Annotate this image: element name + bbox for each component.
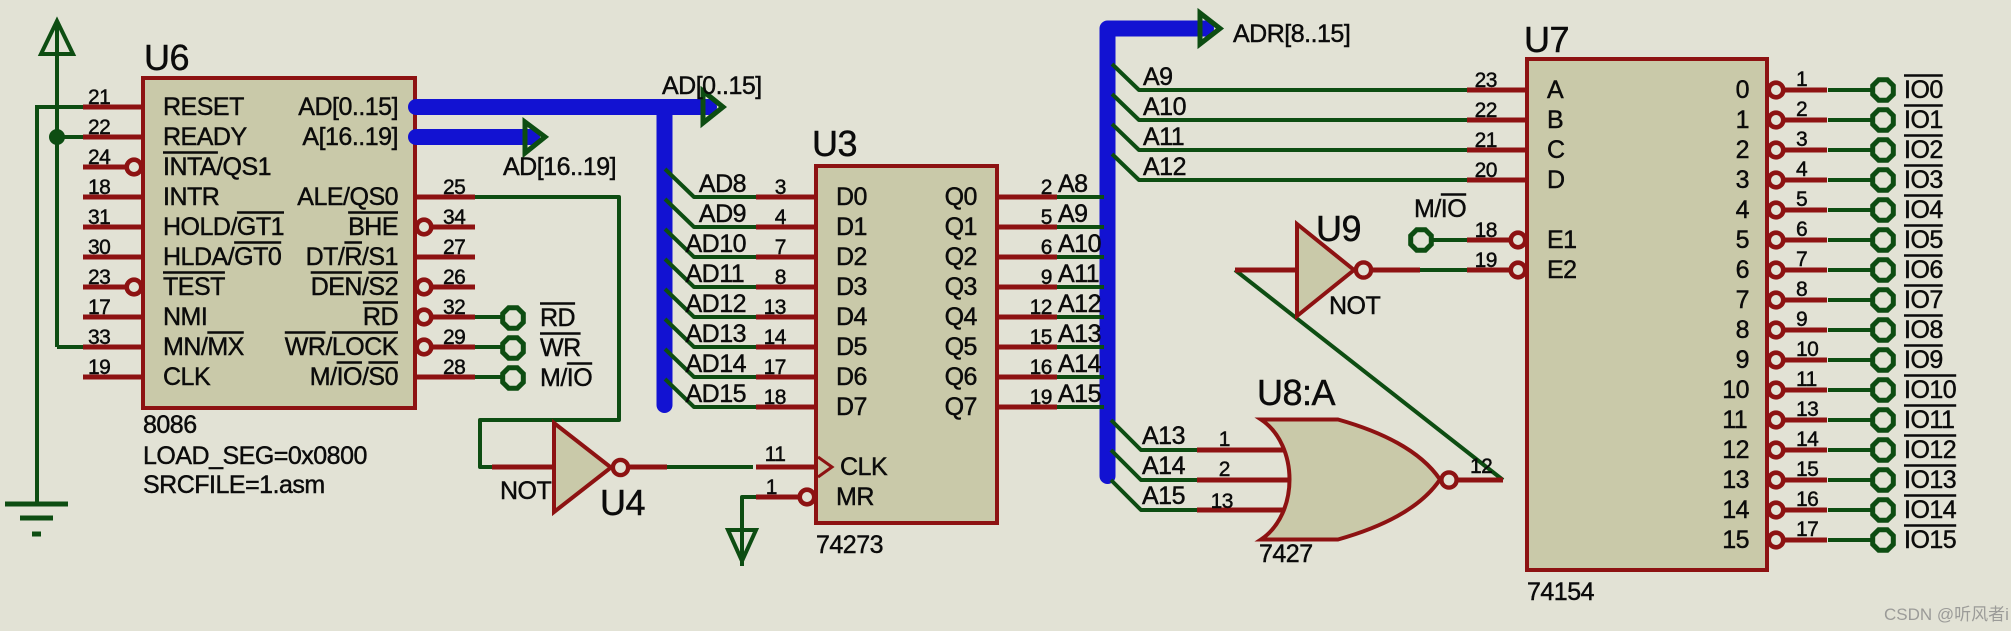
svg-text:16: 16 [1030,356,1052,379]
svg-text:6: 6 [1041,236,1052,259]
svg-text:1: 1 [766,476,777,499]
svg-text:18: 18 [1475,219,1497,242]
svg-text:12: 12 [1470,455,1492,478]
svg-text:30: 30 [88,236,110,259]
svg-text:NOT: NOT [1329,292,1381,320]
svg-text:IO0: IO0 [1904,76,1943,104]
svg-text:AD11: AD11 [686,260,745,288]
svg-text:19: 19 [1475,249,1497,272]
svg-text:20: 20 [1475,159,1497,182]
svg-text:IO12: IO12 [1904,436,1956,464]
svg-text:IO5: IO5 [1904,226,1943,254]
svg-text:LOAD_SEG=0x0800: LOAD_SEG=0x0800 [143,442,367,470]
svg-text:AD[0..15]: AD[0..15] [298,93,398,121]
svg-text:25: 25 [443,176,465,199]
svg-text:D7: D7 [836,393,867,421]
svg-text:22: 22 [1475,99,1497,122]
svg-text:0: 0 [1736,76,1749,104]
svg-text:21: 21 [1475,129,1497,152]
svg-text:33: 33 [88,326,110,349]
svg-text:A8: A8 [1058,170,1088,198]
svg-text:3: 3 [1796,128,1807,151]
svg-text:6: 6 [1736,256,1749,284]
svg-text:RESET: RESET [163,93,244,121]
svg-text:28: 28 [443,356,465,379]
svg-text:CLK: CLK [840,453,888,481]
svg-text:8: 8 [1736,316,1749,344]
svg-text:IO9: IO9 [1904,346,1943,374]
svg-text:AD9: AD9 [699,200,746,228]
svg-text:IO8: IO8 [1904,316,1943,344]
svg-text:IO6: IO6 [1904,256,1943,284]
svg-text:M/IO: M/IO [1414,195,1466,223]
svg-text:14: 14 [1796,428,1819,451]
svg-text:11: 11 [1722,406,1747,434]
svg-text:6: 6 [1796,218,1807,241]
svg-text:AD[0..15]: AD[0..15] [662,72,762,100]
svg-text:8: 8 [775,266,786,289]
svg-text:13: 13 [1722,466,1749,494]
svg-text:29: 29 [443,326,465,349]
svg-text:11: 11 [765,443,786,466]
svg-text:BHE: BHE [348,213,398,241]
svg-text:A15: A15 [1058,380,1101,408]
svg-text:7: 7 [775,236,786,259]
svg-text:10: 10 [1796,338,1818,361]
svg-text:Q0: Q0 [945,183,977,211]
svg-text:M/IO/S0: M/IO/S0 [310,363,398,391]
svg-text:U9: U9 [1316,208,1361,249]
svg-text:AD[16..19]: AD[16..19] [503,153,616,181]
svg-text:27: 27 [443,236,465,259]
svg-text:7: 7 [1736,286,1749,314]
svg-text:A13: A13 [1058,320,1101,348]
svg-text:2: 2 [1796,98,1807,121]
svg-text:23: 23 [88,266,110,289]
svg-text:U4: U4 [600,482,645,523]
svg-text:1: 1 [1736,106,1749,134]
svg-text:Q4: Q4 [945,303,978,331]
svg-text:1: 1 [1796,68,1807,91]
svg-text:IO1: IO1 [1904,106,1943,134]
svg-text:DEN/S2: DEN/S2 [311,273,398,301]
svg-text:AD13: AD13 [686,320,747,348]
svg-text:INTA/QS1: INTA/QS1 [163,153,271,181]
svg-text:A12: A12 [1058,290,1101,318]
svg-text:5: 5 [1041,206,1052,229]
svg-text:E2: E2 [1547,256,1577,284]
svg-text:3: 3 [1736,166,1749,194]
svg-text:D1: D1 [836,213,867,241]
svg-text:A11: A11 [1058,260,1099,288]
svg-text:A[16..19]: A[16..19] [302,123,398,151]
svg-text:AD14: AD14 [686,350,747,378]
svg-text:Q2: Q2 [945,243,977,271]
svg-text:26: 26 [443,266,465,289]
svg-text:C: C [1547,136,1565,164]
svg-text:13: 13 [1796,398,1818,421]
svg-text:2: 2 [1041,176,1052,199]
svg-text:U8:A: U8:A [1257,372,1336,413]
svg-text:AD12: AD12 [686,290,747,318]
svg-text:19: 19 [88,356,110,379]
svg-text:D0: D0 [836,183,867,211]
svg-text:5: 5 [1736,226,1749,254]
svg-text:14: 14 [1722,496,1749,524]
svg-text:Q5: Q5 [945,333,977,361]
svg-text:17: 17 [88,296,110,319]
svg-text:WR/LOCK: WR/LOCK [285,333,399,361]
svg-text:D6: D6 [836,363,867,391]
svg-text:SRCFILE=1.asm: SRCFILE=1.asm [143,471,325,499]
svg-text:IO4: IO4 [1904,196,1943,224]
svg-text:NOT: NOT [500,477,552,505]
svg-text:34: 34 [443,206,466,229]
svg-text:32: 32 [443,296,465,319]
svg-text:IO3: IO3 [1904,166,1943,194]
svg-text:U3: U3 [812,123,857,164]
svg-text:9: 9 [1796,308,1807,331]
svg-text:14: 14 [764,326,787,349]
svg-text:U6: U6 [144,37,189,78]
svg-text:4: 4 [775,206,787,229]
svg-text:15: 15 [1722,526,1749,554]
svg-text:MR: MR [836,483,874,511]
svg-text:HLDA/GT0: HLDA/GT0 [163,243,281,271]
svg-text:MN/MX: MN/MX [163,333,245,361]
svg-text:A13: A13 [1142,422,1185,450]
svg-text:IO14: IO14 [1904,496,1957,524]
svg-text:A11: A11 [1143,123,1184,151]
svg-text:22: 22 [88,116,110,139]
svg-text:D3: D3 [836,273,867,301]
svg-text:D: D [1547,166,1565,194]
svg-text:ADR[8..15]: ADR[8..15] [1233,20,1350,48]
svg-text:IO7: IO7 [1904,286,1943,314]
svg-text:D2: D2 [836,243,867,271]
svg-text:8: 8 [1796,278,1807,301]
svg-text:INTR: INTR [163,183,219,211]
svg-text:15: 15 [1030,326,1052,349]
svg-text:3: 3 [775,176,786,199]
svg-text:IO11: IO11 [1904,406,1954,434]
svg-text:2: 2 [1736,136,1749,164]
svg-text:21: 21 [88,86,110,109]
svg-text:DT/R/S1: DT/R/S1 [306,243,398,271]
svg-text:CLK: CLK [163,363,211,391]
svg-text:Q7: Q7 [945,393,977,421]
svg-text:A14: A14 [1142,452,1186,480]
svg-text:IO10: IO10 [1904,376,1956,404]
svg-text:A15: A15 [1142,482,1185,510]
svg-text:74273: 74273 [816,531,883,559]
svg-text:13: 13 [764,296,786,319]
svg-text:RD: RD [363,303,398,331]
svg-text:16: 16 [1796,488,1818,511]
svg-text:A12: A12 [1143,153,1186,181]
svg-text:18: 18 [88,176,110,199]
svg-text:TEST: TEST [163,273,225,301]
svg-text:31: 31 [88,206,110,229]
svg-text:U7: U7 [1524,19,1569,60]
svg-text:IO2: IO2 [1904,136,1943,164]
svg-text:1: 1 [1219,428,1230,451]
svg-text:READY: READY [163,123,247,151]
svg-text:4: 4 [1796,158,1808,181]
svg-text:13: 13 [1211,490,1233,513]
svg-text:NMI: NMI [163,303,207,331]
svg-text:2: 2 [1219,458,1230,481]
svg-text:23: 23 [1475,69,1497,92]
svg-text:HOLD/GT1: HOLD/GT1 [163,213,284,241]
svg-text:A9: A9 [1143,63,1173,91]
svg-text:RD: RD [540,304,575,332]
svg-text:IO15: IO15 [1904,526,1956,554]
svg-text:10: 10 [1722,376,1749,404]
svg-text:12: 12 [1722,436,1749,464]
svg-text:ALE/QS0: ALE/QS0 [297,183,398,211]
svg-text:A: A [1547,76,1564,104]
svg-text:19: 19 [1030,386,1052,409]
svg-text:17: 17 [1796,518,1818,541]
svg-text:D5: D5 [836,333,867,361]
svg-text:11: 11 [1796,368,1817,391]
svg-text:24: 24 [88,146,111,169]
svg-text:18: 18 [764,386,786,409]
svg-text:12: 12 [1030,296,1052,319]
svg-text:A9: A9 [1058,200,1088,228]
svg-text:74154: 74154 [1527,578,1595,606]
svg-text:A14: A14 [1058,350,1102,378]
svg-text:M/IO: M/IO [540,364,592,392]
svg-text:CSDN @听风者i: CSDN @听风者i [1884,605,2009,624]
svg-text:8086: 8086 [143,411,197,439]
svg-text:Q3: Q3 [945,273,977,301]
svg-text:D4: D4 [836,303,868,331]
svg-text:IO13: IO13 [1904,466,1956,494]
svg-text:AD8: AD8 [699,170,746,198]
svg-text:9: 9 [1736,346,1749,374]
svg-text:5: 5 [1796,188,1807,211]
svg-text:15: 15 [1796,458,1818,481]
svg-text:17: 17 [764,356,786,379]
svg-text:A10: A10 [1143,93,1186,121]
svg-text:A10: A10 [1058,230,1101,258]
svg-text:Q1: Q1 [945,213,977,241]
svg-text:7: 7 [1796,248,1807,271]
svg-text:AD10: AD10 [686,230,747,258]
svg-text:7427: 7427 [1259,540,1313,568]
svg-text:4: 4 [1736,196,1750,224]
svg-text:9: 9 [1041,266,1052,289]
svg-text:AD15: AD15 [686,380,747,408]
svg-text:WR: WR [540,334,581,362]
svg-text:E1: E1 [1547,226,1577,254]
svg-text:B: B [1547,106,1563,134]
svg-text:Q6: Q6 [945,363,977,391]
